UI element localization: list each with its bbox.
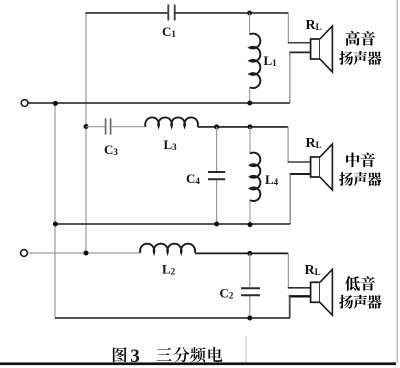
junction: feed node at (86,253) (84, 251, 89, 256)
junction: L4 top (248, 124, 253, 129)
wire: mid feed drop to speaker (287, 127, 289, 162)
capacitor C1 (168, 5, 174, 21)
capacitor C2 leads (249, 253, 251, 287)
wire: woofer feed rail (gray part) (28, 252, 141, 254)
speaker LS1 (tweeter) (311, 39, 320, 59)
text: 高音 (345, 31, 359, 46)
wire: mid feed stub (288, 161, 311, 163)
junction: C3 feed node at (86,126.5) (84, 124, 89, 129)
wire: woofer feed drop to speaker (287, 253, 289, 287)
border: caption cell divider (245, 336, 247, 363)
junction: C4 bottom (214, 222, 219, 227)
wire: mid return stub (290, 173, 311, 175)
caption: 图 3 三分频电 (113, 347, 127, 362)
inductor L2 (140, 244, 195, 253)
junction: x=55 on mid return (53, 222, 58, 227)
inductor L4 (250, 153, 260, 201)
junction: node C1/L1/tweeter top (247, 11, 252, 16)
terminal: lower input circle (21, 250, 28, 257)
wire: mid rail y=127 after L3 (198, 126, 289, 128)
junction: common node at x=55 (53, 101, 58, 106)
capacitor C4 leads (216, 127, 218, 171)
wire: common rail y=103 (28, 102, 290, 104)
junction: L1 bottom (247, 101, 252, 106)
wire: tweeter return drop (289, 52, 291, 103)
border: right rule (396, 0, 398, 363)
wire: common drop from upper input, x=55, y 103..318 (54, 104, 56, 318)
inductor L1 (249, 13, 251, 34)
wire: top rail y=13 (feed to C1) (85, 12, 167, 14)
wire: bottom return rail y=318 (55, 317, 290, 319)
junction: C4 top (214, 124, 219, 129)
wire: C3 lead left (gray) (86, 126, 105, 128)
junction: C2 bottom (247, 316, 252, 321)
wire: C3 to L3 (gray) (111, 126, 146, 128)
wire: woofer return drop (289, 296, 291, 318)
text: 扬声器 (mid) (339, 172, 353, 186)
inductor L3 (145, 117, 198, 126)
capacitor C4 (208, 172, 225, 179)
wire: woofer rail after L2 (195, 252, 288, 254)
text: 低音 (345, 276, 360, 291)
border: bottom rule (0, 362, 396, 365)
text: 扬声器 (tweeter) (339, 51, 353, 65)
wire: mid return drop (289, 174, 291, 224)
text: 扬声器 (woofer) (339, 295, 353, 309)
wire: feed drop from lower input, x=86, y 13..253 (85, 13, 87, 253)
wire: woofer feed stub (288, 287, 311, 289)
capacitor C2 (241, 288, 260, 295)
wire: top rail y=13 (C1 to tweeter corner) (175, 12, 288, 14)
speaker LS2 (midrange) (311, 157, 320, 177)
text: 中音 (346, 153, 359, 168)
junction: C2 top (247, 251, 252, 256)
junction: L4 bottom (248, 222, 253, 227)
wire: woofer return stub (289, 295, 311, 297)
wire: tweeter feed stub (288, 42, 311, 44)
wire: mid return rail y=224 (55, 223, 290, 225)
inductor L4 leads (249, 127, 251, 154)
capacitor C3 (106, 118, 111, 134)
wire: tweeter feed drop x=288 (287, 13, 289, 43)
speaker LS3 (woofer) (311, 282, 320, 302)
wire: tweeter return stub (289, 51, 310, 53)
terminal: upper input circle (21, 100, 28, 107)
